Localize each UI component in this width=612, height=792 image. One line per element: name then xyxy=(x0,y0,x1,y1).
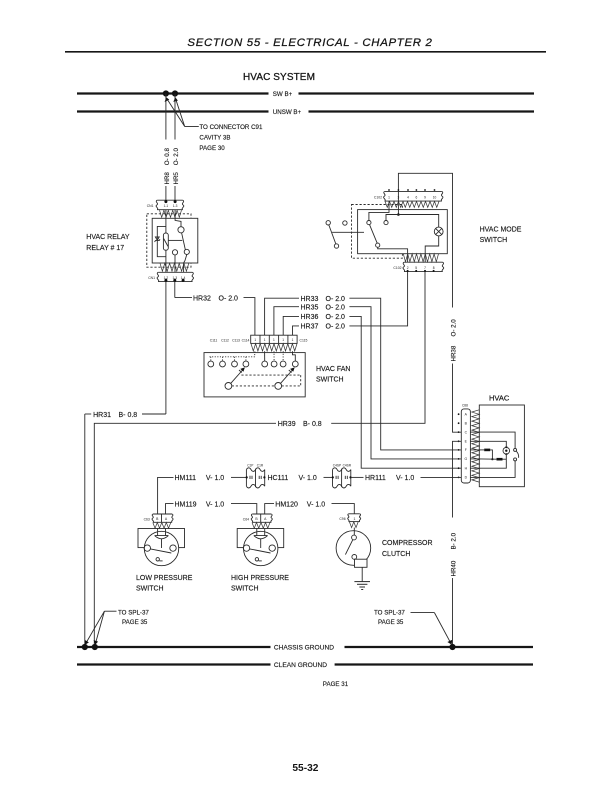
svg-text:1-1: 1-1 xyxy=(164,204,169,208)
mode switch external wire into body xyxy=(332,231,364,233)
svg-text:CLEAN GROUND: CLEAN GROUND xyxy=(274,662,327,669)
LP switch connector C63 xyxy=(152,514,173,522)
wire HM120 corner from HP pin A xyxy=(265,504,274,514)
mode switch top pins 1 3 4 6 9 10 xyxy=(388,195,436,199)
svg-text:C113: C113 xyxy=(232,338,240,342)
mode switch top pin tick dots xyxy=(388,189,435,191)
clutch connector C96 xyxy=(348,514,361,522)
wire NO contact to pin 1-3 bottom xyxy=(174,255,176,272)
relay connector CN1 top xyxy=(156,200,184,210)
wire HR36 stub from C114 xyxy=(283,316,299,335)
svg-text:O- 2.0: O- 2.0 xyxy=(326,314,346,321)
svg-text:1: 1 xyxy=(292,338,294,342)
wire HR32 horizontal left part xyxy=(175,297,192,299)
low pressure switch body xyxy=(144,531,178,565)
svg-text:HVAC: HVAC xyxy=(489,394,510,403)
wire HR40 lower segment xyxy=(452,578,454,647)
wire HR5 lower segment xyxy=(174,186,176,201)
svg-text:O- 2.0: O- 2.0 xyxy=(326,324,346,331)
svg-text:SECTION 55 - ELECTRICAL - CHAP: SECTION 55 - ELECTRICAL - CHAPTER 2 xyxy=(187,37,432,49)
leader lines to connector C91 note xyxy=(167,99,199,127)
relay coil left branch wire xyxy=(157,226,166,256)
HVAC internal wire pin E to motor xyxy=(479,441,506,447)
bus SW B+ left segment xyxy=(77,92,269,94)
wire resistor R2 to motor node xyxy=(503,458,507,460)
svg-text:4: 4 xyxy=(407,195,409,199)
svg-text:1-3: 1-3 xyxy=(173,204,178,208)
svg-text:O- 2.0: O- 2.0 xyxy=(451,319,458,337)
fan switch connector gang C111-C115 xyxy=(251,335,297,343)
svg-text:C63: C63 xyxy=(144,517,150,521)
mode switch bottom pins 2 5 7 8 xyxy=(407,266,435,270)
wire HR38 lower segment to HVAC pin C xyxy=(453,364,462,433)
HVAC pin wire stubs through teeth xyxy=(470,432,479,477)
HP stem xyxy=(260,539,262,548)
fan switch stub C112 to circle xyxy=(264,351,266,361)
svg-text:SWITCH: SWITCH xyxy=(480,237,508,244)
svg-text:PAGE 30: PAGE 30 xyxy=(199,145,225,152)
svg-text:HVAC SYSTEM: HVAC SYSTEM xyxy=(243,72,315,83)
wire HR35 to HVAC pin G xyxy=(349,307,461,459)
wire HR37 stub from C115 xyxy=(293,326,300,335)
wire HR31 horizontal right part xyxy=(142,413,166,415)
relay coil xyxy=(163,233,168,250)
svg-text:B- 2.0: B- 2.0 xyxy=(451,532,458,549)
ground symbol xyxy=(354,582,370,590)
mode switch wire pin3 junction xyxy=(397,201,399,214)
HP teeth xyxy=(252,523,270,529)
svg-text:5: 5 xyxy=(415,266,417,270)
HVAC motor bottom wire to pin H xyxy=(479,454,506,468)
svg-text:HR39: HR39 xyxy=(278,421,296,428)
node dot HR31 ground xyxy=(82,644,88,650)
svg-text:V- 1.0: V- 1.0 xyxy=(299,475,317,482)
HP diaphragm cup xyxy=(254,536,268,539)
mode switch external contact circles xyxy=(326,221,330,225)
svg-text:C1P: C1P xyxy=(247,463,253,467)
svg-text:C114: C114 xyxy=(242,338,250,342)
HP bottom mark xyxy=(255,558,258,561)
svg-text:UNSW B+: UNSW B+ xyxy=(273,109,302,116)
mode switch wiper contact C xyxy=(376,243,380,247)
mode switch wire junction to contact B xyxy=(386,215,398,221)
svg-text:CAVITY 3B: CAVITY 3B xyxy=(199,135,230,142)
node dot HR39 ground xyxy=(92,644,98,650)
inline connector C1P C1R xyxy=(246,468,264,488)
svg-text:COMPRESSOR: COMPRESSOR xyxy=(382,540,433,547)
fan switch dotted bus to C111-C114 xyxy=(210,351,284,361)
svg-text:C1R: C1R xyxy=(257,463,264,467)
bus UNSW B+ left segment xyxy=(77,110,269,112)
svg-text:HR32: HR32 xyxy=(193,295,211,302)
node dot HR40 ground xyxy=(449,644,455,650)
svg-text:C102: C102 xyxy=(393,266,401,270)
svg-text:HC111: HC111 xyxy=(268,475,289,482)
wire HR39 from mode switch pin 7 xyxy=(331,272,425,424)
svg-text:6: 6 xyxy=(416,195,418,199)
leader lines left xyxy=(86,611,117,643)
svg-text:SWITCH: SWITCH xyxy=(316,377,344,384)
mode switch wire lamp to pin 7 xyxy=(425,236,439,262)
wire HR8 lower segment xyxy=(165,186,167,201)
bus chassis ground left segment xyxy=(77,646,271,648)
wire HR111 to HVAC pin D xyxy=(421,476,462,478)
svg-text:8: 8 xyxy=(433,266,435,270)
svg-text:HIGH PRESSURE: HIGH PRESSURE xyxy=(231,575,289,582)
inline connector C4SP C4SR xyxy=(333,468,351,488)
svg-text:HR36: HR36 xyxy=(301,314,319,321)
clutch arm xyxy=(345,540,352,555)
clutch top contact xyxy=(352,535,357,540)
wire HR33 stub from C112 xyxy=(265,298,299,335)
HP backing box xyxy=(237,529,284,548)
connector entry dots xyxy=(332,476,334,478)
svg-text:TO SPL-37: TO SPL-37 xyxy=(118,609,149,616)
wire HM119 to HP pin B xyxy=(231,504,257,514)
LP switch arm xyxy=(150,549,171,553)
wire HR36 to HVAC pin H xyxy=(349,316,461,468)
HP terminals xyxy=(243,545,249,551)
node junction F-G xyxy=(491,458,493,460)
mode switch top feed loop xyxy=(398,173,452,307)
leader line right xyxy=(411,613,451,643)
svg-text:PAGE 35: PAGE 35 xyxy=(378,619,404,626)
fan switch rotor arrow 2 xyxy=(281,369,294,383)
wire HR8 upper segment xyxy=(165,94,167,140)
HP stubs into body xyxy=(256,528,258,535)
relay K17 body xyxy=(152,218,198,263)
node dot on SW B+ for HR5 xyxy=(172,90,178,96)
HVAC internal wire pin C to thermo switch xyxy=(479,432,515,448)
bus SW B+ right segment xyxy=(299,92,535,94)
relay top teeth xyxy=(160,210,182,217)
wire HR31 vertical from relay pin 1-2 xyxy=(165,282,167,414)
bus clean ground right segment xyxy=(335,663,533,665)
relay suppression diode xyxy=(155,237,159,240)
svg-text:O- 2.0: O- 2.0 xyxy=(219,295,239,302)
svg-text:HM120: HM120 xyxy=(275,501,298,508)
wire resistor to junction xyxy=(490,450,492,459)
svg-text:O- 0.8: O- 0.8 xyxy=(164,148,171,166)
svg-text:HR31: HR31 xyxy=(93,412,111,419)
svg-text:1: 1 xyxy=(264,338,266,342)
relay dashed outline xyxy=(147,214,191,267)
wire HR33 to HVAC pin F xyxy=(349,298,461,450)
bus clean ground left segment xyxy=(77,663,271,665)
svg-text:HM119: HM119 xyxy=(175,501,197,508)
svg-text:HR8: HR8 xyxy=(164,172,171,185)
wire pin 1-1 through teeth xyxy=(165,210,167,233)
svg-text:C4SR: C4SR xyxy=(343,463,352,467)
svg-text:2: 2 xyxy=(407,266,409,270)
clutch ground stem xyxy=(361,567,363,581)
relay common contact xyxy=(178,227,184,233)
high pressure switch body xyxy=(244,531,278,565)
clutch bottom contact xyxy=(352,555,357,560)
svg-text:1: 1 xyxy=(254,338,256,342)
svg-text:10: 10 xyxy=(433,195,437,199)
svg-text:C115: C115 xyxy=(300,338,308,342)
svg-text:F: F xyxy=(465,448,467,452)
wire HM111 to connector C1 xyxy=(231,476,246,478)
wire HM120 to clutch xyxy=(332,504,355,514)
svg-text:SWITCH: SWITCH xyxy=(136,586,164,593)
mode switch bottom connector C102 xyxy=(403,262,444,271)
svg-text:CN1: CN1 xyxy=(147,204,154,208)
relay top connector entry dots xyxy=(164,200,167,203)
fan switch teeth xyxy=(251,344,297,351)
wire HM119 corner from LP pin A xyxy=(166,504,174,514)
mode switch wire pin1 to contact A xyxy=(369,201,389,220)
wire HR32 to fan switch C111 xyxy=(244,298,255,336)
blower resistor R2 xyxy=(497,458,503,461)
wire HR5 upper segment xyxy=(174,94,176,140)
svg-text:RELAY # 17: RELAY # 17 xyxy=(86,245,124,252)
svg-text:1: 1 xyxy=(282,338,284,342)
HVAC teeth xyxy=(472,410,479,482)
wire pin 1-3 through teeth xyxy=(175,210,181,227)
svg-text:55-32: 55-32 xyxy=(292,763,318,774)
HP switch arm xyxy=(250,549,271,553)
wire HR35 stub from C113 xyxy=(274,307,299,336)
HVAC strip tick dots xyxy=(458,413,460,478)
clutch teeth xyxy=(349,522,358,528)
mode switch body xyxy=(358,210,448,254)
blower resistor R1 xyxy=(484,449,490,452)
node dot on SW B+ for HR8 xyxy=(163,90,169,96)
blower motor M1 xyxy=(503,447,510,454)
fan switch rotor 2 xyxy=(275,383,282,390)
wire HC111 to connector C4S xyxy=(324,476,333,478)
mode switch dashed outline xyxy=(352,205,403,259)
relay NO contact left xyxy=(172,250,177,255)
mode switch top teeth xyxy=(385,201,439,207)
mode switch bottom pin dots xyxy=(407,270,435,272)
mode switch wire junction to lamp xyxy=(398,215,438,228)
svg-text:C4SP: C4SP xyxy=(333,463,341,467)
wire HR31 down to chassis ground xyxy=(84,414,86,647)
svg-text:O- 2.0: O- 2.0 xyxy=(326,305,346,312)
svg-text:1: 1 xyxy=(273,338,275,342)
svg-text:CHASSIS GROUND: CHASSIS GROUND xyxy=(274,645,334,652)
svg-text:HVAC FAN: HVAC FAN xyxy=(316,366,351,373)
svg-text:SW B+: SW B+ xyxy=(273,91,293,98)
compressor clutch body xyxy=(336,531,371,566)
HVAC internal wire switch to pin D xyxy=(479,461,515,478)
svg-text:HR35: HR35 xyxy=(301,305,319,312)
mode switch lamp xyxy=(434,227,443,236)
HVAC strip pin letters xyxy=(464,412,467,479)
svg-text:C112: C112 xyxy=(221,338,229,342)
header rule xyxy=(65,51,546,53)
HVAC unit body xyxy=(479,405,524,487)
svg-text:1: 1 xyxy=(388,195,390,199)
svg-text:V- 1.0: V- 1.0 xyxy=(206,475,224,482)
bus chassis ground right segment xyxy=(345,646,534,648)
svg-text:C64: C64 xyxy=(243,517,249,521)
svg-text:V- 1.0: V- 1.0 xyxy=(206,501,224,508)
svg-text:HR40: HR40 xyxy=(451,560,458,576)
relay switch arm xyxy=(182,233,186,250)
HVAC internal wire pin F resistor xyxy=(479,449,484,451)
wire HR40 from HVAC pin E xyxy=(453,441,462,517)
HVAC thermo switch arm xyxy=(516,451,518,458)
mode switch wire contact C to pin 2 xyxy=(378,247,408,262)
fan connector pin 1 marks xyxy=(254,338,293,342)
relay connector CN1 bottom xyxy=(157,272,193,281)
svg-text:3: 3 xyxy=(398,195,400,199)
svg-text:1: 1 xyxy=(353,517,355,521)
LP stubs into body xyxy=(157,528,159,535)
LP bottom mark xyxy=(156,558,159,561)
svg-text:9: 9 xyxy=(424,195,426,199)
fan switch dashed linkage xyxy=(232,375,301,386)
HVAC thermo switch contacts xyxy=(514,448,517,451)
wire HR39 left segment xyxy=(94,423,276,647)
fan switch body xyxy=(204,353,305,397)
svg-text:O- 2.0: O- 2.0 xyxy=(173,148,180,166)
svg-text:HR33: HR33 xyxy=(301,296,319,303)
svg-text:C88: C88 xyxy=(462,404,468,408)
LP terminals xyxy=(144,545,150,551)
LP backing box xyxy=(138,529,185,548)
clutch wire into body xyxy=(353,528,355,536)
fan switch rotor 1 xyxy=(225,383,232,390)
svg-text:C111: C111 xyxy=(210,338,218,342)
leader arrowhead right xyxy=(447,640,452,645)
svg-text:SWITCH: SWITCH xyxy=(231,586,259,593)
svg-text:CN1: CN1 xyxy=(148,276,155,280)
svg-text:TO CONNECTOR C91: TO CONNECTOR C91 xyxy=(199,124,263,131)
LP teeth xyxy=(153,523,171,529)
svg-text:B- 0.8: B- 0.8 xyxy=(119,412,138,419)
wire HR32 vertical from relay pin 1-3 xyxy=(174,282,176,298)
fan switch stub C115 to circle xyxy=(293,351,296,361)
clutch tab xyxy=(355,559,368,567)
svg-text:HR111: HR111 xyxy=(365,475,386,482)
leader arrowheads left xyxy=(85,640,89,645)
HVAC internal wire pin G xyxy=(479,458,496,460)
svg-text:PAGE 35: PAGE 35 xyxy=(122,619,148,626)
svg-text:CLUTCH: CLUTCH xyxy=(382,551,410,558)
svg-text:C102: C102 xyxy=(374,196,382,200)
LP stem xyxy=(161,539,163,548)
wire HR111 stub xyxy=(351,476,364,478)
leader arrowheads xyxy=(165,97,170,102)
svg-text:TO SPL-37: TO SPL-37 xyxy=(374,609,405,616)
HVAC connector strip C88 xyxy=(461,409,470,483)
fan switch rotor arrow 1 xyxy=(231,369,244,383)
connector entry dots xyxy=(246,476,248,478)
relay coil to arm link xyxy=(168,239,182,241)
mode switch wiper arm xyxy=(370,225,378,244)
wire HM111 corner from LP pin B xyxy=(158,477,174,514)
LP diaphragm cup xyxy=(155,536,169,539)
svg-text:B- 0.8: B- 0.8 xyxy=(303,421,322,428)
relay bottom teeth xyxy=(160,263,189,271)
relay NC contact right xyxy=(184,249,189,254)
fan switch contact circles xyxy=(208,361,298,367)
svg-text:PAGE 31: PAGE 31 xyxy=(323,681,349,688)
svg-text:HR5: HR5 xyxy=(173,172,180,185)
svg-text:V- 1.0: V- 1.0 xyxy=(396,475,414,482)
mode switch bottom teeth xyxy=(403,254,438,262)
svg-text:O- 2.0: O- 2.0 xyxy=(326,296,346,303)
svg-text:7: 7 xyxy=(424,266,426,270)
HP switch connector C64 xyxy=(251,514,272,522)
svg-text:HVAC MODE: HVAC MODE xyxy=(480,227,522,234)
svg-text:HR38: HR38 xyxy=(451,345,458,361)
svg-text:G: G xyxy=(464,457,467,461)
mode switch external arm xyxy=(329,225,336,244)
relay bottom connector exit dots xyxy=(164,279,167,282)
mode switch contact A xyxy=(367,221,371,225)
mode switch contact B xyxy=(384,221,388,225)
wire NC contact to pin 1-4 xyxy=(184,255,187,273)
svg-text:LOW PRESSURE: LOW PRESSURE xyxy=(136,575,193,582)
svg-text:C96: C96 xyxy=(339,517,345,521)
wire HR31 left stub xyxy=(85,413,91,415)
wire coil bottom to pin 1-2 xyxy=(165,250,167,272)
svg-text:HVAC RELAY: HVAC RELAY xyxy=(86,234,130,241)
svg-text:HR37: HR37 xyxy=(301,324,319,331)
bus UNSW B+ right segment xyxy=(309,110,535,112)
mode switch top connector C102 xyxy=(384,191,443,201)
svg-text:HM111: HM111 xyxy=(175,475,197,482)
wire HR37 to mode switch pin 2 xyxy=(349,272,407,326)
svg-text:V- 1.0: V- 1.0 xyxy=(307,501,325,508)
